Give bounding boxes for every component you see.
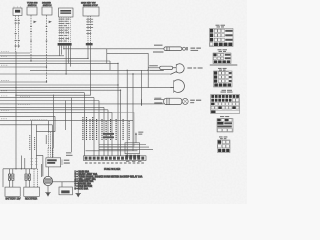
fuse strip cells [85,157,145,160]
wire label marks left-bottom [31,158,42,177]
wire bus to CDI [0,124,52,126]
wire bus white [0,100,99,102]
turn signal connector arrow [30,21,37,42]
ground right of coil [75,193,81,197]
wire bus yellow-red [0,55,64,57]
ground under magneto [45,193,51,197]
svg-text:RECTIFIER: RECTIFIER [25,199,37,201]
center connector bars [103,133,114,138]
connector right of main fuse [183,47,188,50]
text TO ML [191,48,201,52]
wire main switch drop 2 [90,45,92,95]
junction dots [15,48,148,96]
wire bus to headlamp loop 2 [0,87,173,89]
svg-text:SWITCH: SWITCH [28,5,37,7]
wire bus brown [0,52,30,54]
wire drop to fuse 7 [117,63,119,155]
dimmer switch wire [46,15,48,82]
wire bus green-yellow [0,109,108,111]
label fuse holder [104,169,121,171]
brake switch top text [138,132,143,135]
labels tail capsule [154,98,162,104]
wires into regulator [34,169,38,187]
wire feeder cross [107,52,148,54]
wire ignition drop 5 [67,46,69,64]
flywheel magneto [43,176,52,185]
wire rectifier jog [36,131,55,133]
wire bus to brake switch [0,120,133,122]
connector grid D [211,90,240,114]
wire CDI to magneto [48,167,50,177]
wire bus black-white [0,57,88,59]
wire ignition drop 6 [70,46,72,67]
lamp circle X [182,98,188,104]
dimmer connector arrow [46,21,52,42]
wire main switch drop 1 [87,45,89,58]
label main switch [81,1,98,7]
wire drop to fuse 10 [132,74,134,151]
wire drop to fuse 1 [84,93,86,156]
junctions battery [15,168,22,169]
wire ignition drop 2 [61,46,63,55]
ignition coil box [59,187,72,195]
wire center drop a [65,101,67,131]
horn wire connector marks [15,20,20,47]
wire feeder junction drop [106,49,108,64]
svg-text:BATTERY 12V: BATTERY 12V [6,198,22,201]
lower center horizontal wires [86,145,154,151]
magneto to ground wire [47,186,49,193]
ignition bundle wire labels [59,19,70,42]
wire left of CDI [36,155,43,176]
turn signal wire [30,15,32,61]
label above main fuse [153,45,164,53]
wire CDI riser [53,95,55,149]
wire jog green [109,61,111,70]
wire bus to headlamp loop tail [0,73,170,75]
wire bus red-white [0,106,104,108]
wire stub to fuse capsule 2 [148,67,160,69]
connector grid B [213,49,231,63]
main switch wires [88,16,91,43]
wire bus orange [0,81,47,83]
ignition switch wire bundle [60,17,71,43]
wire brake drop to CDI [48,121,50,132]
connector grid C [210,64,238,87]
svg-text:MAIN KEY SW: MAIN KEY SW [81,1,96,4]
wire ignition drop 1 [59,46,61,56]
main switch box [83,7,99,16]
connector grid A [210,25,234,47]
main switch wire labels [86,19,93,34]
wire labels regulator drops [30,135,35,150]
label battery [6,198,22,201]
dimmer switch box [42,7,52,15]
horn switch wires [16,16,19,54]
wire bus light-green [0,89,121,91]
wire to tail lamp capsule drop [141,70,143,105]
text right of lamp [190,100,201,104]
brake switch connector row [125,155,140,158]
text left of strip [66,152,73,156]
bracket right of CDI [62,160,63,166]
wire drop to fuse 2 [93,98,95,156]
svg-text:8 = ACC 10A: 8 = ACC 10A [75,187,89,190]
svg-text:ENGINE STOP: ENGINE STOP [83,5,98,7]
brake switch pin labels [126,161,141,162]
svg-text:FUSE HOLDER: FUSE HOLDER [104,169,121,171]
wire bus black-yellow [16,94,91,96]
wire bus gray [0,66,47,68]
svg-text:TURN SIG: TURN SIG [27,2,38,4]
main switch connector bar [86,43,93,45]
regulator box [24,187,40,196]
main fuse capsule [164,47,182,51]
label turn signal switch [27,2,38,7]
wire bus to tail lamp capsule [0,103,154,105]
wire bus blue [0,97,94,99]
turn signal switch box [27,7,37,15]
wire drop to fuse 3 [98,101,100,156]
ignition switch box [59,8,74,17]
label dimmer switch [42,2,52,7]
wire magneto to ignition coil [53,182,79,194]
left edge wire code labels [1,52,9,119]
wire bus blue-white [0,62,118,64]
wire CDI branch [51,125,53,158]
wire horn drop [15,52,17,96]
ignition bundle connector bar [58,43,72,46]
junction dots feeder [117,63,149,75]
tail capsule [142,98,182,106]
fuse symbols above regulator [25,169,31,187]
battery feed wires [3,95,36,187]
connector grid F [218,136,231,152]
wires into CDI unit [49,132,51,148]
wire rectifier branch [54,116,56,131]
legend lines [75,171,143,191]
fuse strip outline [84,156,147,161]
connector grid E [217,116,233,132]
wire label dashes on bus [18,97,48,120]
wire bus green [0,60,110,62]
fuse symbols above battery [8,169,14,187]
headlamp loop 2 [171,80,185,93]
wire drop to fuse 6 [111,112,113,155]
label regulator [25,199,37,201]
wire drop to fuse 5 [107,110,109,156]
wire ignition drop 4 [65,46,67,74]
wire drop to fuse 4 [103,107,105,155]
center module outline [99,113,134,147]
svg-text:SWITCH: SWITCH [43,5,52,7]
fuse strip pin numbers [85,162,144,163]
ticks above horn box [14,6,21,8]
svg-text:DIMMER: DIMMER [42,2,51,4]
text right of loop 1 [187,67,202,68]
wire regulator drop 2 [35,125,37,169]
vertical wire labels center [83,117,129,140]
battery box [5,187,20,196]
horn switch box [13,8,22,16]
wire up from brake switch [135,132,137,143]
brake switch box [125,143,140,154]
CDI unit box [46,158,61,167]
wire center drop b [71,98,73,152]
wire drop to fuse 8 [120,90,122,156]
wire right riser [147,53,149,87]
wire regulator drop 1 [31,121,33,169]
wire drop to fuse 9 [126,70,128,156]
wire bus white-red [30,69,148,71]
headlamp loop 1 [170,64,184,75]
text right of CDI [64,160,70,164]
capsule 2 [160,66,173,69]
wire ignition drop 3 [63,46,65,49]
wire bus brown-white [0,115,55,117]
wire bus black-red [0,111,112,113]
wire ignition feed to main fuse [64,48,164,50]
labels capsule 2 [149,65,164,71]
wire bus pink [0,92,85,94]
wire bus dark-green [0,84,118,86]
